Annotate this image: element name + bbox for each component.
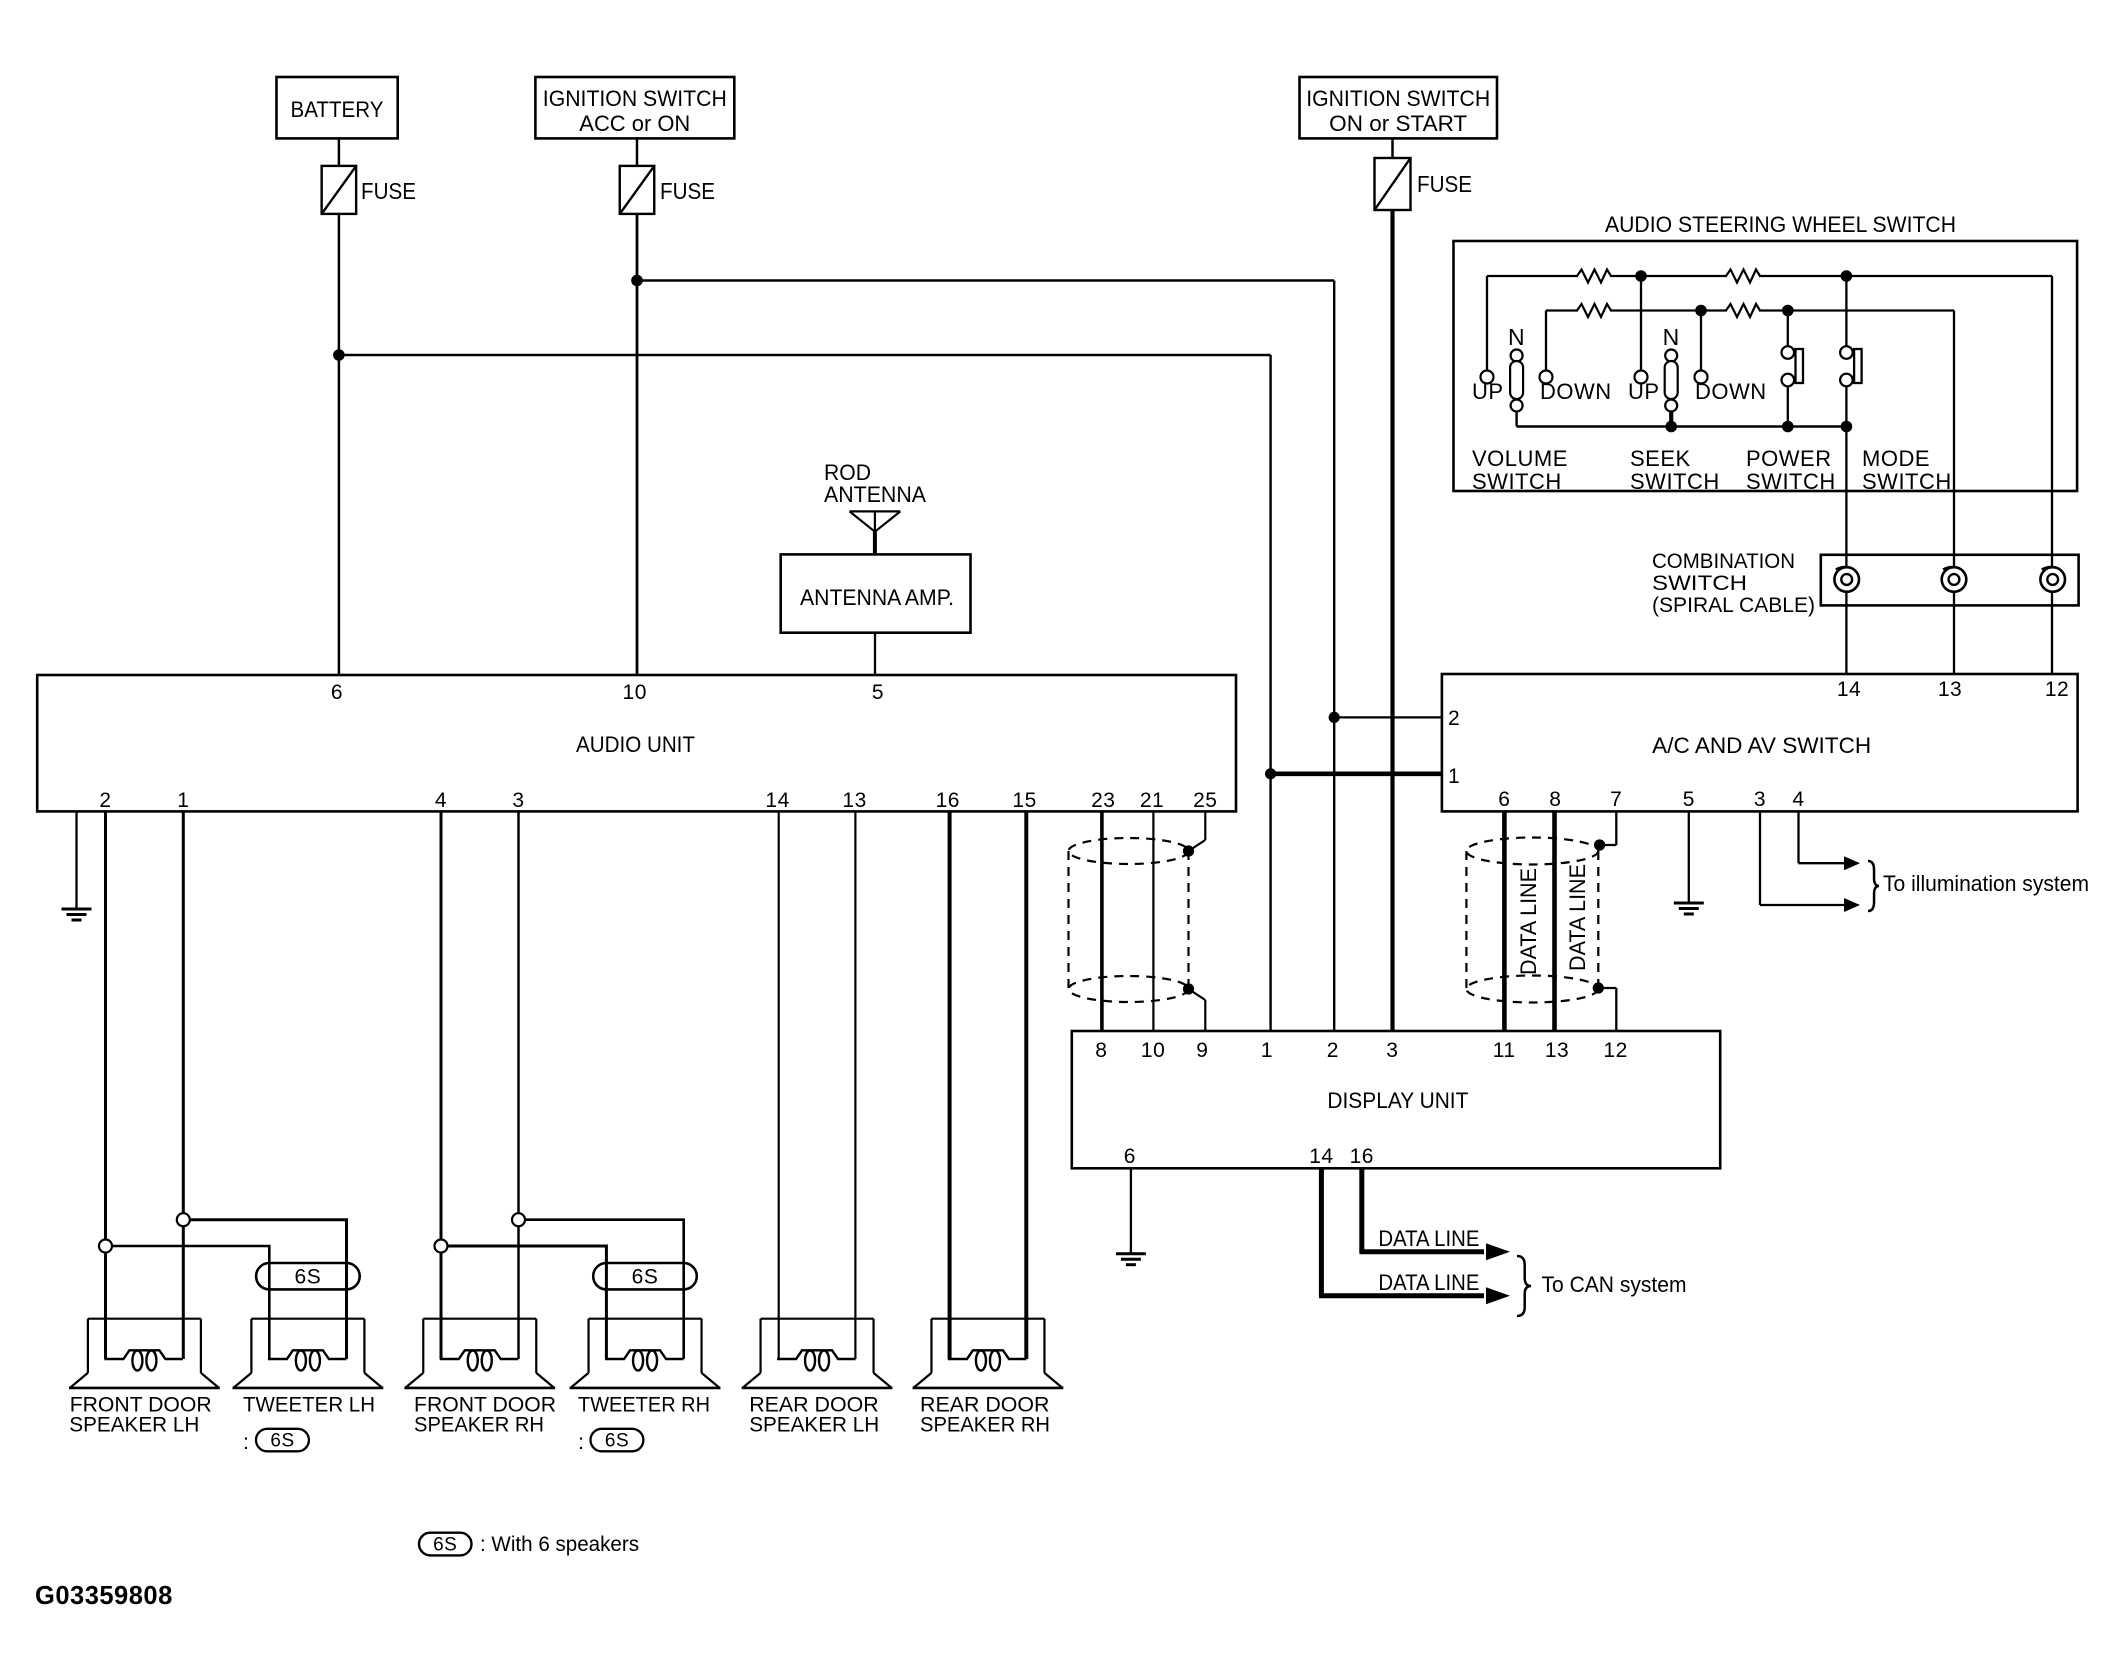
svg-text:UP: UP (1472, 379, 1504, 404)
svg-text:: With 6 speakers: : With 6 speakers (480, 1532, 639, 1556)
svg-text:TWEETER LH: TWEETER LH (243, 1393, 375, 1417)
svg-text:AUDIO STEERING WHEEL SWITCH: AUDIO STEERING WHEEL SWITCH (1605, 212, 1956, 237)
svg-text:To illumination system: To illumination system (1883, 871, 2089, 896)
svg-text:N: N (1663, 324, 1680, 350)
svg-text:TWEETER RH: TWEETER RH (578, 1393, 710, 1417)
svg-text:COMBINATION: COMBINATION (1652, 549, 1795, 573)
svg-text:FUSE: FUSE (1417, 171, 1472, 197)
svg-text:IGNITION SWITCH: IGNITION SWITCH (543, 86, 727, 111)
svg-text:SPEAKER RH: SPEAKER RH (414, 1413, 544, 1437)
svg-text:DISPLAY UNIT: DISPLAY UNIT (1327, 1088, 1468, 1113)
svg-text:23: 23 (1091, 789, 1115, 812)
svg-text:SEEK: SEEK (1630, 446, 1691, 471)
svg-text:DOWN: DOWN (1540, 379, 1612, 404)
svg-text:9: 9 (1196, 1039, 1208, 1062)
svg-text:4: 4 (1792, 788, 1804, 811)
svg-text:2: 2 (99, 789, 111, 812)
svg-text:SPEAKER RH: SPEAKER RH (920, 1413, 1050, 1437)
svg-text:POWER: POWER (1746, 446, 1832, 471)
svg-text:ACC or ON: ACC or ON (579, 111, 690, 136)
svg-text:6: 6 (331, 681, 343, 704)
svg-text:SPEAKER LH: SPEAKER LH (749, 1413, 879, 1437)
svg-text:ANTENNA: ANTENNA (824, 482, 926, 507)
svg-text:1: 1 (1261, 1039, 1273, 1062)
svg-text:FUSE: FUSE (361, 178, 416, 204)
svg-text:3: 3 (1754, 788, 1766, 811)
svg-text:SWITCH: SWITCH (1746, 469, 1836, 494)
svg-text:5: 5 (872, 681, 884, 704)
svg-text:SWITCH: SWITCH (1472, 469, 1562, 494)
svg-text:6S: 6S (270, 1431, 294, 1452)
svg-text:6: 6 (1498, 788, 1510, 811)
svg-text:BATTERY: BATTERY (291, 97, 384, 122)
svg-text:13: 13 (1938, 678, 1962, 701)
svg-text:25: 25 (1193, 789, 1217, 812)
svg-text:DATA LINE: DATA LINE (1516, 868, 1541, 975)
svg-text:1: 1 (177, 789, 189, 812)
svg-text:14: 14 (1837, 678, 1861, 701)
svg-text:A/C AND AV SWITCH: A/C AND AV SWITCH (1652, 733, 1871, 758)
svg-text:6S: 6S (632, 1266, 659, 1289)
svg-text:11: 11 (1493, 1039, 1516, 1062)
svg-text:13: 13 (1545, 1039, 1569, 1062)
svg-text:DATA LINE: DATA LINE (1378, 1270, 1479, 1295)
svg-text:SWITCH: SWITCH (1862, 469, 1952, 494)
svg-text:SWITCH: SWITCH (1630, 469, 1720, 494)
svg-text:14: 14 (765, 789, 789, 812)
svg-text:6S: 6S (605, 1431, 629, 1452)
svg-text:UP: UP (1628, 379, 1660, 404)
svg-text:10: 10 (623, 681, 647, 704)
svg-text:AUDIO UNIT: AUDIO UNIT (576, 732, 695, 757)
svg-text:12: 12 (2045, 678, 2069, 701)
svg-text:8: 8 (1095, 1039, 1107, 1062)
svg-text:12: 12 (1603, 1039, 1627, 1062)
svg-text:IGNITION SWITCH: IGNITION SWITCH (1306, 86, 1490, 111)
svg-text:VOLUME: VOLUME (1472, 446, 1568, 471)
svg-text:16: 16 (936, 789, 960, 812)
svg-text:ANTENNA AMP.: ANTENNA AMP. (800, 585, 954, 610)
svg-text:10: 10 (1141, 1039, 1165, 1062)
svg-text:2: 2 (1327, 1039, 1339, 1062)
svg-text:N: N (1508, 324, 1525, 350)
svg-text::: : (243, 1430, 249, 1454)
svg-text:SPEAKER LH: SPEAKER LH (69, 1413, 199, 1437)
svg-text:To CAN system: To CAN system (1542, 1272, 1687, 1297)
svg-text:6S: 6S (295, 1266, 322, 1289)
svg-text:6S: 6S (433, 1535, 457, 1556)
svg-text:FUSE: FUSE (660, 178, 715, 204)
svg-text:4: 4 (435, 789, 447, 812)
svg-text:ON or START: ON or START (1329, 111, 1467, 136)
svg-text:G03359808: G03359808 (35, 1582, 173, 1610)
svg-text:(SPIRAL CABLE): (SPIRAL CABLE) (1652, 593, 1815, 617)
svg-text:5: 5 (1683, 788, 1695, 811)
svg-text:3: 3 (512, 789, 524, 812)
svg-text:DOWN: DOWN (1695, 379, 1767, 404)
svg-text:MODE: MODE (1862, 446, 1930, 471)
svg-text::: : (578, 1430, 584, 1454)
svg-text:13: 13 (842, 789, 866, 812)
svg-text:16: 16 (1350, 1145, 1374, 1168)
svg-text:15: 15 (1012, 789, 1036, 812)
svg-text:1: 1 (1448, 765, 1460, 788)
svg-text:8: 8 (1549, 788, 1561, 811)
svg-text:21: 21 (1140, 789, 1164, 812)
svg-text:2: 2 (1448, 707, 1460, 730)
svg-text:3: 3 (1386, 1039, 1398, 1062)
svg-text:14: 14 (1309, 1145, 1333, 1168)
svg-text:7: 7 (1610, 788, 1622, 811)
svg-text:DATA LINE: DATA LINE (1565, 864, 1590, 971)
svg-text:6: 6 (1124, 1145, 1136, 1168)
svg-text:DATA LINE: DATA LINE (1378, 1226, 1479, 1251)
svg-text:SWITCH: SWITCH (1652, 571, 1747, 595)
